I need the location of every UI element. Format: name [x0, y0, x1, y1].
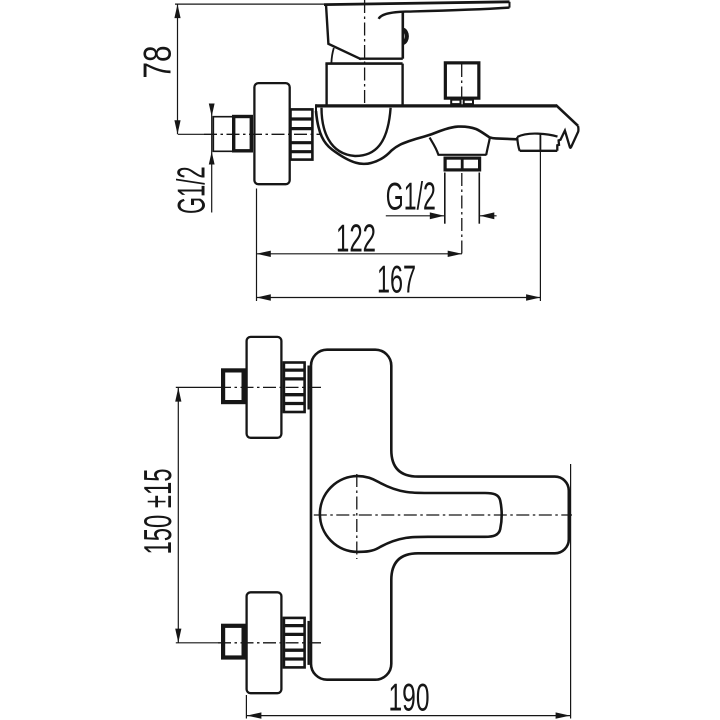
svg-text:78: 78 — [137, 46, 180, 79]
svg-text:G1/2: G1/2 — [386, 175, 436, 218]
svg-text:150 ±15: 150 ±15 — [137, 469, 180, 555]
svg-text:122: 122 — [336, 217, 376, 260]
svg-text:167: 167 — [377, 259, 416, 302]
svg-text:190: 190 — [389, 677, 430, 720]
svg-text:G1/2: G1/2 — [171, 167, 214, 215]
